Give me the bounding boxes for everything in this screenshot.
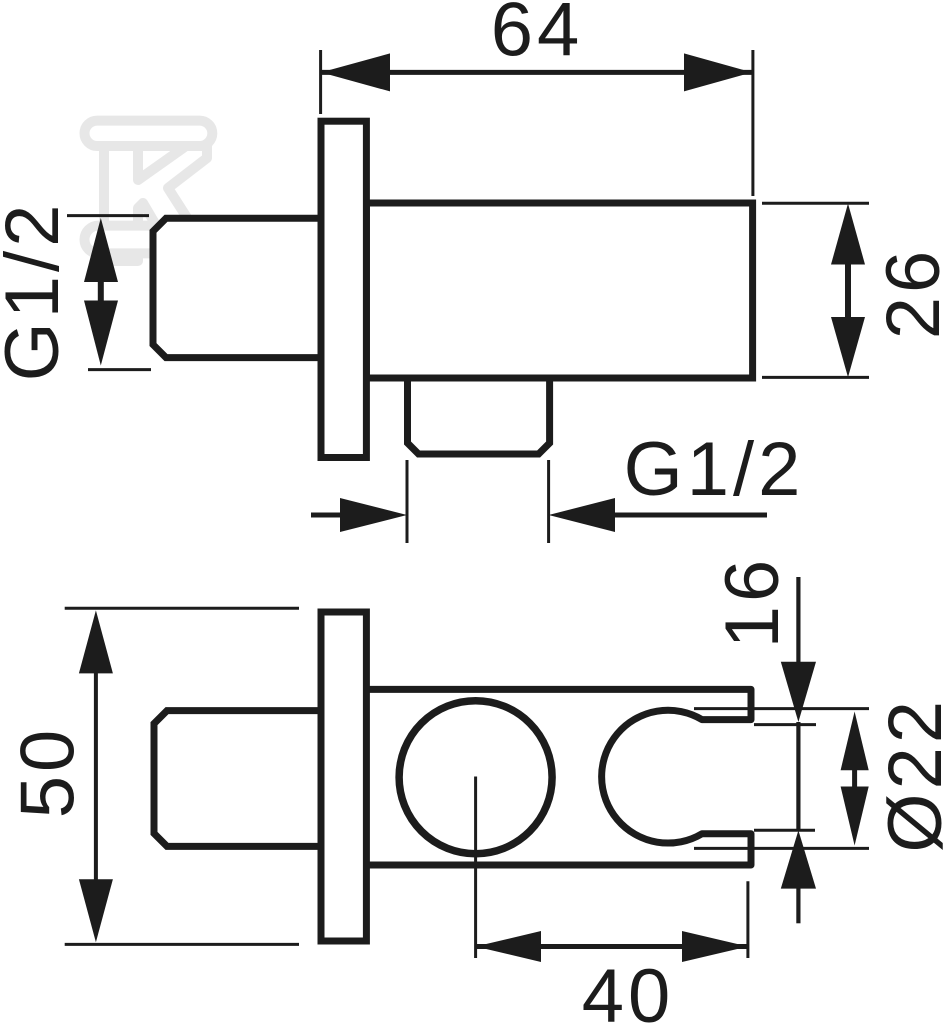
dimension 16 up arrowhead [781,830,816,888]
dimension 16 lower shaft [796,886,800,923]
dimension 16 top extension line [754,723,816,726]
dimension 64 line [321,70,752,75]
svg-text:16: 16 [710,556,795,649]
dimension 64 right arrowhead [684,53,752,91]
top view body [366,203,752,378]
dimension diameter 22 down arrowhead [841,787,869,846]
outlet dimension right extension line [547,460,550,543]
bottom view water inlet circle [399,701,552,854]
dimension 40 right arrowhead [682,931,748,962]
outlet dimension right arrowhead [549,498,615,532]
dimension 64 left extension line [319,50,322,114]
top view wall plate [321,121,366,457]
dimension G1/2 down arrowhead [84,301,118,366]
dimension diameter 22 top extension line [694,707,869,710]
dimension 16 bottom extension line [754,829,815,832]
dimension 40 line [476,944,748,949]
top view outlet spigot [408,378,550,454]
bottom view G1/2 inlet nub [154,711,321,847]
dimension 40 right extension line [746,881,749,958]
dimension 50 top extension line [65,607,299,610]
outlet dimension left arrowhead [340,498,407,532]
dimension 16 down arrowhead [781,662,816,722]
bottom view holder bar with fork [366,689,751,865]
svg-text:G1/2: G1/2 [0,201,75,382]
outlet dimension left extension line [406,460,409,543]
dimension G1/2 bottom tick [88,368,151,371]
svg-text:40: 40 [582,954,675,1024]
dimension 50 up arrowhead [79,610,113,673]
svg-text:Ø22: Ø22 [873,697,945,853]
svg-text:26: 26 [871,247,945,340]
top view G1/2 inlet nub [153,218,321,357]
bottom view wall plate [321,612,366,941]
dimension G1/2 top tick [67,214,149,217]
dimension diameter 22 up arrowhead [841,712,869,771]
outlet dimension left tail line [311,513,342,518]
dimension 26 up arrowhead [831,204,865,265]
dimension G1/2 up arrowhead [84,218,118,282]
dimension diameter 22 connector bar [852,770,857,787]
dimension 16 connector line [796,722,800,830]
dimension 50 bottom extension line [65,943,299,946]
dimension 16 upper shaft [796,577,800,664]
dimension 50 shaft [94,660,98,890]
dimension 64 right extension line [751,50,754,196]
dimension 26 connector bar [845,265,851,318]
svg-text:64: 64 [491,0,584,73]
watermark top bar [85,121,213,146]
dimension diameter 22 bottom extension line [694,847,869,850]
outlet dimension right tail line [614,513,767,518]
dimension 26 bottom extension line [762,376,869,379]
dimension 50 down arrowhead [79,879,113,942]
dimension G1/2 connector bar [98,282,104,301]
svg-text:G1/2: G1/2 [624,427,805,512]
dimension 64 left arrowhead [321,53,390,91]
watermark bottom bar [85,226,213,254]
dimension 40 left arrowhead [476,931,541,962]
bottom view centre line [474,777,477,959]
watermark K logo letter [104,146,207,261]
svg-text:50: 50 [5,726,90,819]
dimension 26 top extension line [762,202,869,205]
dimension 26 down arrowhead [831,317,865,377]
